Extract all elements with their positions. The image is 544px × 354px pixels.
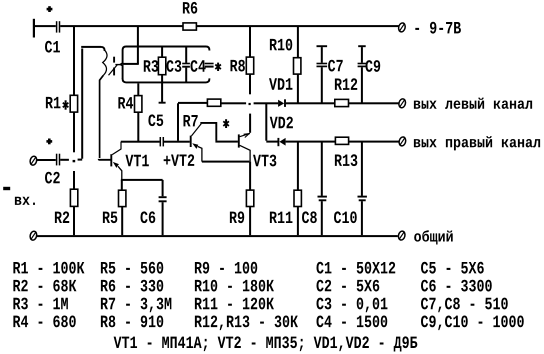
node junction dot C2/R1/R2 [73, 160, 76, 162]
table row1 [13, 262, 483, 274]
wire R8 down to junction [249, 74, 251, 94]
wire top rail C1 to R6 [60, 25, 183, 27]
resistor R13 [335, 137, 348, 144]
label R4 [118, 97, 133, 108]
resistor R1 [70, 95, 77, 112]
label selection asterisk for C4 [215, 63, 221, 71]
wire VT1 emitter bus [121, 179, 163, 181]
capacitor C7 top bar [317, 45, 328, 47]
wire VD1 to left output line [286, 102, 399, 104]
transistor VT3 upper lead with arrow [240, 133, 250, 137]
resistor R6 [183, 23, 196, 30]
table row2 [13, 280, 491, 292]
label VD1 [269, 78, 292, 89]
label R6 [183, 2, 197, 14]
wire center tap to rail [123, 26, 139, 65]
wire bus down to R5 [121, 180, 123, 190]
label VT1 [125, 155, 148, 166]
wire primary left leg [81, 46, 85, 159]
terminal common bottom-left [29, 231, 37, 241]
diode VD2 [277, 138, 285, 146]
node junction dash on detector line [249, 103, 251, 105]
label R5 [103, 212, 117, 224]
wire common rail [37, 235, 398, 237]
terminal common right [398, 230, 406, 240]
wire VT2 base up to R7 [177, 103, 179, 141]
wire right line down to R11 [297, 142, 299, 191]
core of transformer [113, 57, 115, 76]
transistor VT2 emitter lead with arrow [192, 143, 202, 161]
resistor R2 [70, 189, 77, 206]
wire R11 to common rail [297, 207, 299, 236]
wire VD2 to right output line [286, 141, 399, 143]
capacitor C4 [205, 63, 214, 68]
wire right line down to C8 [321, 142, 323, 196]
label вых левый канал [414, 98, 532, 109]
tuning arrow of transformer [109, 64, 122, 75]
wire VT2 emitter to VT3 column [202, 161, 250, 163]
label C8 [302, 211, 317, 223]
table row4 [13, 316, 523, 331]
wire top-left input to C1 [34, 25, 56, 27]
resistor R3 [158, 47, 165, 83]
wire input terminal to C2 [37, 159, 56, 161]
resistor R12 [335, 99, 349, 106]
wire rail down to R10 [297, 26, 299, 58]
terminal input bottom-left [29, 156, 37, 166]
resistor R5 [119, 190, 126, 206]
polarity plus sign for C1 [47, 6, 53, 12]
label minus polarity at input [3, 187, 10, 190]
node R3 ground bar [159, 102, 166, 104]
transistor VT1 emitter lead with arrow [113, 162, 122, 180]
label R2 [55, 211, 69, 223]
transistor VT1 base bar [110, 154, 112, 166]
inductor L1 primary winding [103, 50, 107, 75]
label C1 [45, 41, 60, 53]
capacitor C8 [318, 196, 327, 202]
wire to VD2 anode [266, 141, 277, 143]
capacitor C9 [358, 47, 367, 67]
capacitor C7 [317, 47, 328, 67]
wire rail down to R8 [249, 26, 251, 57]
table row3 [13, 298, 507, 313]
label R7 [183, 115, 197, 126]
wire R5 to common rail [121, 207, 123, 236]
wire junction stub to primary winding [78, 159, 83, 161]
label C7 [328, 60, 343, 72]
wire VT1 collector to C5 [121, 141, 160, 143]
label R11 [270, 212, 293, 223]
label R3 [144, 60, 158, 72]
label C5 [148, 114, 163, 126]
label вых правый канал [414, 136, 540, 150]
transistor VT3 base bar [238, 134, 240, 147]
wire tank bottom to R4 [137, 83, 139, 95]
resistor R11 [294, 190, 301, 206]
terminal right channel output [398, 136, 406, 146]
resistor R9 [246, 190, 253, 206]
resistor R7 [207, 99, 220, 106]
label VT3 [253, 155, 276, 167]
wire C2 to junction [60, 159, 69, 161]
label вх. [15, 197, 35, 205]
polarity plus sign for C2 [46, 139, 52, 145]
wire tank bottom edge [123, 78, 210, 82]
inductor L2 secondary winding tank left edge [121, 50, 123, 79]
table row5 semiconductors [114, 336, 418, 351]
wire tank top edge [123, 47, 210, 51]
wire VT2 collector jog to VT3 base [201, 123, 238, 143]
diode VD1 [278, 99, 286, 107]
label selection asterisk for R1 [63, 100, 69, 109]
wire C7 down to left output line [321, 67, 323, 103]
label C3 [167, 60, 182, 72]
wire right line down to C10 [361, 142, 363, 196]
wire rail down to R1 [73, 26, 75, 95]
wire C10 to common rail [361, 201, 363, 235]
capacitor C6 [159, 196, 167, 202]
label R12 [335, 78, 357, 90]
label +VT2 [164, 154, 195, 166]
label R13 [335, 154, 357, 166]
resistor R10 [294, 58, 301, 74]
label - 9-7В [415, 22, 461, 34]
label C2 [45, 172, 60, 184]
label VD2 [270, 117, 293, 129]
transistor VT3 lower lead [240, 145, 251, 161]
wire R1 down to junction [73, 112, 75, 152]
wire C9 down to left output line [361, 67, 363, 103]
wire VT3/VT2 emitters down to R9 [249, 162, 251, 191]
resistor R4 [135, 96, 142, 113]
capacitor C1 [56, 21, 60, 32]
wire R4 down to collector node [137, 112, 139, 142]
wire R2 to common rail [73, 206, 75, 235]
wire primary bottom leg [99, 75, 111, 159]
capacitor C3 [182, 47, 190, 83]
label R9 [230, 211, 244, 223]
capacitor C9 top bar [358, 45, 366, 47]
wire C5 to VT2 base [164, 141, 190, 143]
transistor VT2 collector lead [192, 124, 202, 136]
label C10 [334, 211, 357, 223]
capacitor C5 [160, 137, 165, 146]
transistor VT1 collector lead [112, 142, 121, 155]
node minus supply input terminal top-left bar [33, 19, 35, 38]
wire bus down to C6 [162, 180, 164, 196]
label R10 [270, 39, 292, 51]
terminal -9-7V [398, 22, 406, 32]
label R1 [46, 97, 61, 108]
label C6 [141, 211, 156, 223]
capacitor C10 [358, 196, 367, 202]
wire junction to VD1 [254, 102, 279, 104]
wire tap down to VD2 [265, 103, 267, 140]
wire R7 left segment [178, 102, 207, 104]
wire primary top [85, 46, 105, 51]
wire R7 to junction [221, 102, 246, 104]
wire R3 bottom stub [161, 82, 163, 102]
resistor R8 [246, 57, 253, 74]
capacitor C2 [56, 154, 60, 166]
wire R10 down to left output line [297, 74, 299, 103]
label общий [414, 230, 453, 244]
wire junction down to VT3 [249, 114, 251, 133]
wire junction down to R2 [73, 171, 75, 189]
terminal left channel output [398, 98, 406, 108]
wire C8 to common rail [321, 201, 323, 235]
label C4 [191, 60, 206, 72]
label R8 [230, 60, 244, 72]
wire C6 to common rail [162, 202, 164, 235]
wire R9 to common rail [249, 207, 251, 236]
wire top rail R6 to supply terminal [196, 25, 398, 27]
label selection asterisk for R7 [223, 119, 229, 128]
transistor VT2 base bar [190, 136, 192, 147]
label C9 [366, 60, 381, 72]
